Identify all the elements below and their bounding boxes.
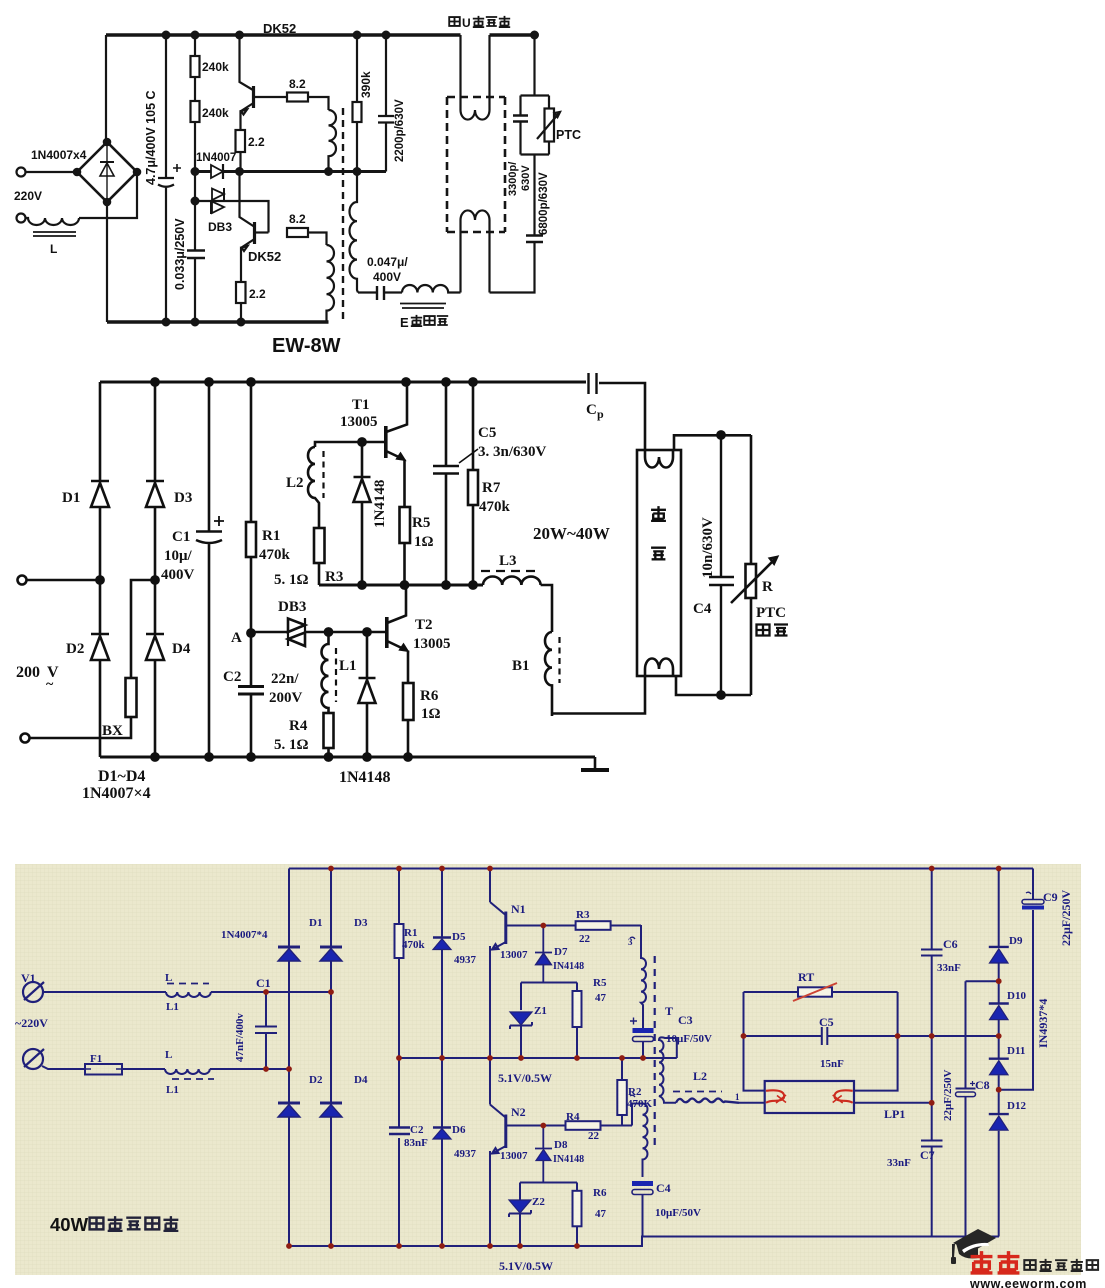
svg-text:EW-8W: EW-8W	[272, 335, 341, 357]
wire T1 base	[315, 442, 386, 447]
svg-text:~220V: ~220V	[15, 1016, 48, 1030]
svg-text:D10: D10	[1007, 990, 1026, 1002]
svg-text:240k: 240k	[202, 60, 229, 74]
svg-text:D2: D2	[309, 1074, 323, 1086]
svg-text:F1: F1	[90, 1053, 102, 1065]
wire to fuse	[30, 717, 131, 738]
inductor L/L1 lower	[165, 1069, 210, 1074]
winding B1	[545, 632, 552, 716]
svg-text:C8: C8	[975, 1078, 990, 1092]
diode D2	[278, 1102, 300, 1105]
svg-text:R1: R1	[262, 528, 280, 544]
svg-text:C2: C2	[410, 1124, 424, 1136]
wire PTC to 6800p	[533, 155, 535, 236]
input terminal 1	[17, 168, 26, 177]
svg-text:L2: L2	[693, 1069, 707, 1083]
label 灯管 vertical	[651, 506, 666, 559]
transistor T2 DK52	[240, 172, 255, 227]
wire	[26, 171, 77, 173]
svg-text:240k: 240k	[202, 106, 229, 120]
svg-text:R4: R4	[566, 1111, 580, 1123]
svg-text:L: L	[165, 972, 172, 984]
diode D10	[989, 1002, 1009, 1004]
capacitor 3300p/630V	[513, 116, 528, 122]
wire D3/D4 column	[154, 382, 157, 757]
svg-text:PTC: PTC	[556, 128, 581, 142]
wire top rail	[100, 381, 586, 384]
svg-text:T2: T2	[415, 617, 433, 633]
title 40W电子镇流器	[50, 1214, 178, 1235]
resistor R2	[621, 1058, 623, 1126]
svg-text:3: 3	[628, 937, 633, 947]
svg-text:2.2: 2.2	[249, 287, 266, 301]
capacitor C3	[633, 1028, 654, 1033]
diode D4	[146, 634, 164, 660]
svg-text:40W: 40W	[50, 1214, 89, 1235]
capacitor C5 15nF	[744, 1027, 898, 1045]
transistor T1 13005	[384, 426, 388, 458]
winding L2	[308, 447, 319, 528]
diode D11	[989, 1057, 1009, 1059]
wire	[122, 1068, 165, 1070]
svg-text:13007: 13007	[500, 949, 528, 961]
lamp LP1	[765, 1081, 854, 1113]
transistor N2	[490, 1105, 505, 1118]
secondary winding right	[350, 172, 359, 293]
resistor R3 5.1	[314, 528, 325, 563]
capacitor 2200p/630V	[378, 35, 394, 172]
resistor 2.2 (T1 emitter)	[236, 130, 246, 152]
capacitor 6800p/630V	[526, 236, 543, 243]
svg-text:1Ω: 1Ω	[414, 534, 434, 550]
wire B1 to lamp bottom	[552, 676, 645, 714]
svg-text:D5: D5	[452, 931, 466, 943]
svg-text:D1: D1	[309, 917, 322, 929]
wire to D1 column	[27, 579, 100, 582]
wire D1/D2 column	[99, 382, 102, 757]
svg-text:BX: BX	[102, 723, 123, 739]
svg-text:10μ/: 10μ/	[164, 548, 193, 564]
wire	[385, 291, 403, 293]
svg-text:390k: 390k	[359, 71, 373, 98]
svg-text:8.2: 8.2	[289, 212, 306, 226]
coil winding lower	[327, 245, 335, 322]
C3 plus mark	[630, 1018, 637, 1025]
pin mark 6	[630, 1095, 635, 1097]
pin mark 3	[630, 937, 635, 939]
svg-text:DK52: DK52	[263, 21, 296, 36]
resistor 390k	[356, 35, 358, 172]
diode D5 column	[441, 869, 443, 1247]
label 电阻	[757, 625, 789, 636]
svg-text:C5: C5	[478, 425, 496, 441]
capacitor C8 column	[966, 981, 999, 1088]
input terminal 1	[18, 576, 27, 585]
wire column D3/D4	[330, 869, 332, 1247]
diode D9	[989, 946, 1009, 948]
transistor column	[489, 869, 491, 1247]
svg-text:1N4007x4: 1N4007x4	[31, 148, 87, 162]
wire to lamp pin1	[739, 1102, 765, 1104]
svg-text:4937: 4937	[454, 954, 477, 966]
svg-text:www.eeworm.com: www.eeworm.com	[969, 1277, 1087, 1288]
svg-text:DK52: DK52	[248, 249, 281, 264]
wire L3 to B1	[541, 585, 552, 632]
resistor 240k (lower)	[191, 101, 200, 122]
svg-text:DB3: DB3	[208, 220, 232, 234]
svg-text:C2: C2	[223, 669, 241, 685]
svg-text:C6: C6	[943, 937, 958, 951]
svg-text:DB3: DB3	[278, 599, 306, 615]
thermistor R PTC	[750, 435, 753, 695]
svg-text:~: ~	[46, 677, 54, 692]
wire to bridge	[210, 1068, 289, 1070]
svg-text:D1: D1	[62, 490, 80, 506]
svg-text:13005: 13005	[413, 636, 451, 652]
svg-text:U: U	[462, 16, 471, 30]
svg-text:C7: C7	[920, 1148, 935, 1162]
svg-text:470K: 470K	[627, 1098, 653, 1110]
capacitor 0.047u/400V	[377, 286, 384, 300]
svg-text:4.7μ/400V 105 C: 4.7μ/400V 105 C	[144, 90, 158, 185]
svg-text:47: 47	[595, 1208, 607, 1220]
svg-text:5. 1Ω: 5. 1Ω	[274, 572, 309, 588]
diac DB3	[251, 631, 287, 634]
winding L1	[322, 632, 329, 713]
svg-text:10μF/50V: 10μF/50V	[666, 1033, 712, 1045]
svg-text:R2: R2	[628, 1086, 642, 1098]
junction dots (red)	[263, 866, 1002, 1249]
svg-text:R3: R3	[325, 569, 343, 585]
wire top right drop	[533, 35, 535, 96]
wire base line T2	[329, 631, 387, 634]
svg-text:1N4007*4: 1N4007*4	[221, 929, 268, 941]
svg-text:630V: 630V	[520, 165, 532, 191]
svg-text:D3: D3	[174, 490, 192, 506]
ground symbol	[594, 757, 597, 768]
svg-text:1: 1	[735, 1092, 740, 1102]
resistor 2.2 (T2 emitter)	[236, 282, 246, 303]
svg-text:R6: R6	[593, 1187, 607, 1199]
mid rail wire	[195, 170, 386, 173]
wire left drop to bridge	[105, 35, 107, 143]
junction dots mid rail	[192, 168, 199, 175]
svg-text:D7: D7	[554, 946, 568, 958]
thermistor R PTC	[545, 109, 555, 142]
junction dots top rail	[163, 32, 170, 39]
svg-text:R6: R6	[420, 688, 439, 704]
capacitor C1 47nF/400v	[255, 992, 277, 1069]
svg-text:A: A	[231, 630, 242, 646]
capacitor C 4.7u/400V	[158, 35, 174, 322]
wire 8.2 to lower coil	[308, 233, 327, 246]
svg-text:10n/630V: 10n/630V	[700, 517, 716, 578]
svg-text:IN4148: IN4148	[553, 1154, 584, 1165]
diode 1N4148 lower	[359, 632, 376, 757]
svg-text:R4: R4	[289, 718, 308, 734]
resistor R4 5.1	[324, 713, 334, 748]
svg-text:2.2: 2.2	[248, 135, 265, 149]
junction dots bottom rail	[163, 319, 170, 326]
resistor 240k (upper)	[191, 56, 200, 77]
svg-text:C5: C5	[819, 1015, 834, 1029]
diode D8	[535, 1126, 552, 1183]
wire 8.2 to feedback coil	[308, 97, 329, 110]
wire mid rail	[319, 584, 483, 587]
label E型磁芯	[400, 315, 448, 330]
svg-text:IN4148: IN4148	[553, 961, 584, 972]
capacitor C2 83nF	[389, 1128, 410, 1135]
wire L to bridge right vertex	[79, 172, 137, 218]
svg-text:20W~40W: 20W~40W	[533, 524, 610, 543]
svg-text:D9: D9	[1009, 935, 1023, 947]
resistor R7 470k	[472, 382, 475, 585]
svg-text:L2: L2	[286, 475, 304, 491]
wire lamp right pin2	[854, 1102, 932, 1104]
capacitor Cp	[589, 373, 597, 394]
svg-text:200V: 200V	[269, 690, 303, 706]
svg-text:1N4007×4: 1N4007×4	[82, 785, 151, 802]
inductor L3	[483, 577, 541, 586]
svg-text:1N4148: 1N4148	[339, 769, 391, 786]
svg-text:IN4937*4: IN4937*4	[1036, 999, 1050, 1048]
svg-text:D2: D2	[66, 641, 84, 657]
svg-text:C4: C4	[693, 601, 712, 617]
lamp top filament	[461, 35, 490, 120]
svg-text:D1~D4: D1~D4	[98, 768, 145, 785]
svg-text:C4: C4	[656, 1181, 671, 1195]
wire phase 1	[44, 991, 166, 993]
wire bottom loop	[676, 676, 751, 695]
svg-text:5. 1Ω: 5. 1Ω	[274, 737, 309, 753]
capacitor C9 top right	[1032, 869, 1034, 900]
inductor L/L1	[166, 992, 211, 997]
svg-text:T1: T1	[352, 397, 370, 413]
svg-text:470k: 470k	[402, 939, 426, 951]
diode D7	[535, 926, 552, 983]
zener Z2 / R6 loop	[520, 1182, 577, 1184]
svg-text:47: 47	[595, 992, 607, 1004]
capacitor C1 10u/400V	[196, 382, 222, 757]
transformer core dashed	[342, 108, 344, 320]
svg-text:400V: 400V	[161, 567, 195, 583]
inductor E-core	[402, 285, 461, 293]
svg-text:D3: D3	[354, 917, 368, 929]
diode D6	[433, 1126, 451, 1128]
svg-text:R5: R5	[412, 515, 430, 531]
svg-text:13005: 13005	[340, 414, 378, 430]
wire bottom rail left	[289, 1237, 999, 1247]
svg-text:RT: RT	[798, 970, 814, 984]
svg-text:D4: D4	[354, 1074, 368, 1086]
svg-text:0.047μ/: 0.047μ/	[367, 255, 408, 269]
svg-text:83nF: 83nF	[404, 1137, 428, 1149]
label 双U型灯管	[449, 16, 510, 30]
svg-text:D8: D8	[554, 1139, 568, 1151]
coil winding upper (feedback)	[329, 110, 337, 172]
RT / C5 resonant box	[744, 992, 765, 1091]
svg-text:22: 22	[588, 1130, 600, 1142]
transistor T2 13005	[385, 617, 389, 648]
transformer core dashed	[654, 956, 656, 1151]
wire to bridge	[211, 991, 331, 993]
wire bottom rail	[107, 320, 329, 323]
resistor R3	[543, 925, 641, 927]
wire bottom link	[358, 291, 376, 293]
svg-text:2200p/630V: 2200p/630V	[394, 99, 406, 162]
lamp bottom filament	[461, 210, 490, 292]
svg-text:T: T	[665, 1004, 673, 1018]
svg-text:N2: N2	[511, 1105, 526, 1119]
svg-text:R7: R7	[482, 480, 501, 496]
svg-text:33nF: 33nF	[887, 1157, 911, 1169]
diode D3	[146, 481, 164, 507]
resistor R1 column	[398, 869, 400, 1247]
inductor L2	[676, 1099, 739, 1103]
svg-text:22μF/250V: 22μF/250V	[942, 1069, 954, 1121]
svg-text:L1: L1	[166, 1084, 179, 1096]
transistor T1 DK52	[240, 35, 254, 90]
PTC block outline	[521, 96, 550, 155]
svg-text:220V: 220V	[14, 189, 42, 203]
diode 1N4148 upper	[354, 442, 371, 585]
svg-text:L3: L3	[499, 553, 517, 569]
svg-text:D4: D4	[172, 641, 191, 657]
wire bottom rail	[100, 756, 595, 759]
svg-text:22: 22	[579, 933, 591, 945]
svg-text:5.1V/0.5W: 5.1V/0.5W	[499, 1259, 553, 1273]
diode D3	[320, 946, 342, 949]
resistor R6 1ohm	[403, 683, 414, 720]
svg-text:B1: B1	[512, 658, 530, 674]
wire BX up to D3 column	[131, 580, 155, 678]
svg-text:LP1: LP1	[884, 1107, 905, 1121]
wire C5 line to diode column	[898, 1035, 999, 1037]
svg-text:L: L	[165, 1049, 172, 1061]
winding W3	[632, 1104, 648, 1178]
svg-text:22n/: 22n/	[271, 671, 299, 687]
svg-text:V1: V1	[21, 971, 36, 985]
wire lamp top right to C4/PTC	[674, 435, 751, 450]
svg-text:D12: D12	[1007, 1100, 1026, 1112]
lamp rectangle	[637, 450, 681, 676]
input terminal 2	[17, 214, 26, 223]
watermark 虫虫 red	[971, 1251, 1020, 1273]
input terminal V1	[23, 982, 43, 1002]
lamp filaments	[645, 450, 673, 468]
wire left column D1/D2	[288, 869, 290, 1247]
svg-text:E: E	[400, 315, 409, 330]
svg-text:L: L	[50, 242, 57, 256]
svg-text:R3: R3	[576, 909, 590, 921]
svg-text:R5: R5	[593, 977, 607, 989]
capacitor C2 22n/200V	[238, 687, 264, 695]
svg-text:L1: L1	[166, 1001, 179, 1013]
svg-text:Z2: Z2	[532, 1196, 545, 1208]
svg-text:Z1: Z1	[534, 1005, 547, 1017]
svg-text:13007: 13007	[500, 1150, 528, 1162]
transistor N1	[490, 902, 505, 915]
wire bottom right	[490, 243, 535, 293]
svg-text:5.1V/0.5W: 5.1V/0.5W	[498, 1071, 552, 1085]
svg-text:4937: 4937	[454, 1148, 477, 1160]
transformer T winding W1	[641, 925, 646, 1029]
svg-text:0.033μ/250V: 0.033μ/250V	[173, 218, 187, 290]
capacitor C6 column	[921, 869, 943, 1237]
lamp tube dashed outline	[447, 97, 505, 232]
resistor 8.2 (T1 base)	[287, 93, 308, 102]
resistor R5 1ohm	[400, 507, 411, 543]
node A / wire	[250, 633, 253, 686]
capacitor 0.033u/250V	[187, 251, 205, 259]
input terminal 2	[23, 1049, 43, 1069]
inductor L	[26, 218, 79, 225]
svg-text:200: 200	[16, 664, 40, 681]
svg-text:1N4007: 1N4007	[196, 152, 236, 164]
diac DB3	[195, 201, 269, 233]
resistor R1 470k	[250, 382, 253, 633]
diode D1	[91, 481, 109, 507]
svg-text:8.2: 8.2	[289, 77, 306, 91]
wire 240k chain column	[194, 35, 196, 322]
watermark graduation cap	[951, 1229, 996, 1264]
zener Z1 / R5 loop	[521, 982, 577, 984]
wire mid rail	[399, 1057, 677, 1059]
wire phase 2	[42, 1066, 85, 1069]
svg-text:10μF/50V: 10μF/50V	[655, 1207, 701, 1219]
svg-text:470k: 470k	[479, 499, 511, 515]
svg-text:p: p	[597, 407, 604, 421]
svg-text:R: R	[762, 579, 773, 595]
lamp filament left (red)	[766, 1090, 784, 1103]
diode D12	[989, 1113, 1009, 1115]
svg-text:33nF: 33nF	[937, 962, 961, 974]
svg-text:3300p/: 3300p/	[507, 162, 519, 196]
wire top rail	[289, 868, 1033, 870]
input terminal 2	[21, 734, 30, 743]
svg-text:L1: L1	[339, 658, 357, 674]
capacitor C4	[632, 1181, 653, 1186]
svg-text:15nF: 15nF	[820, 1058, 844, 1070]
capacitor C4 10n/630V	[709, 435, 734, 695]
svg-text:N1: N1	[511, 902, 526, 916]
RT red slash	[793, 983, 837, 1001]
svg-text:C3: C3	[678, 1013, 693, 1027]
beige canvas	[15, 864, 1081, 1275]
svg-text:1Ω: 1Ω	[421, 706, 441, 722]
fuse F1	[85, 1064, 122, 1075]
winding W2	[659, 1037, 677, 1102]
diode D1	[278, 946, 300, 949]
wire bridge bottom to bottom rail	[106, 202, 108, 322]
svg-text:C1: C1	[256, 976, 271, 990]
svg-text:D6: D6	[452, 1124, 466, 1136]
watermark 电子下载站	[1024, 1259, 1098, 1271]
svg-text:3. 3n/630V: 3. 3n/630V	[478, 444, 547, 460]
lamp filament right (red)	[835, 1090, 853, 1103]
svg-text:22μF/250V: 22μF/250V	[1059, 890, 1073, 946]
junction dots	[151, 378, 158, 385]
diode 1N4007	[211, 165, 223, 178]
svg-text:R1: R1	[404, 927, 417, 939]
bridge rectifier 1N4007x4	[77, 142, 137, 202]
svg-text:470k: 470k	[259, 547, 291, 563]
diode chain column D9-D12	[998, 869, 1000, 1237]
diode D4	[320, 1102, 342, 1105]
svg-text:47nF/400v: 47nF/400v	[234, 1013, 246, 1062]
fuse BX	[126, 678, 137, 717]
svg-text:PTC: PTC	[756, 605, 786, 621]
